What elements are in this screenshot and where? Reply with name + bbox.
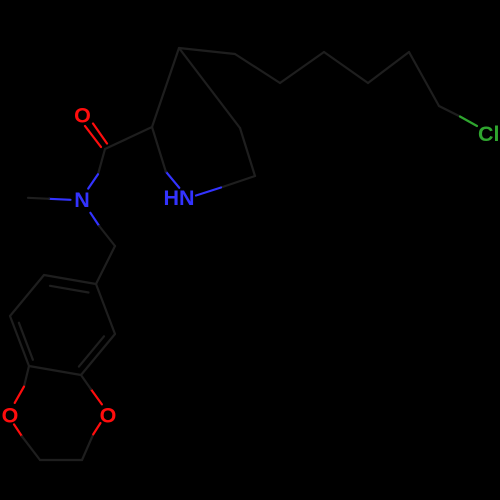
bond Ca-O2 oxygen half (red) (15, 387, 24, 403)
chain bond A2-A3 (280, 52, 324, 83)
bond O2-CH2L carbon half (22, 436, 40, 460)
bond N1-CH3 carbon half (28, 198, 49, 199)
svg-text:N: N (74, 188, 90, 212)
benzene edge Cb-RT (81, 334, 115, 375)
chain bond A1-A2 (235, 54, 280, 83)
benzene inner line Cb-RT (79, 336, 104, 366)
benzene edge V6-V5 (10, 275, 44, 316)
benzene edge Bt-V6 (44, 275, 96, 284)
benzene edge Ca-Cb (29, 366, 81, 375)
bond Cco-N1 carbon half (98, 149, 105, 174)
bond O3-Cb oxygen half (red) (91, 389, 102, 404)
benzene edge V5-Ca (10, 316, 29, 366)
bond CH2R-O3 carbon half (82, 434, 93, 460)
bond Ca-O2 carbon half (24, 366, 29, 387)
bond N1-CH2 nitrogen half (blue) (90, 213, 99, 226)
bond C=O double (red) (85, 124, 107, 148)
svg-text:O: O (2, 404, 19, 428)
bond O2-CH2L oxygen half (red) (14, 424, 22, 436)
chain bond A4-A5 (368, 52, 409, 83)
bond N2-C2 nitrogen half (blue) (166, 172, 180, 188)
svg-text:HN: HN (163, 186, 194, 210)
bond CH2-benzene (96, 246, 115, 284)
benzene inner line Bt-V6 (50, 286, 89, 293)
bond CH2L-CH2R (40, 459, 82, 461)
svg-text:Cl: Cl (478, 122, 500, 146)
ring bond C4-C6 (179, 48, 240, 128)
benzene edge RT-Bt (96, 284, 115, 334)
chain bond A3-A4 (324, 52, 368, 83)
bond C1-N2 nitrogen half (blue) (196, 188, 221, 196)
svg-text:O: O (100, 404, 117, 428)
bond N1-CH2 carbon half (99, 226, 115, 246)
chain bond A5-A6 (409, 52, 439, 106)
bond C1-N2 carbon half (221, 176, 255, 188)
bond N2-C2 carbon half (152, 127, 166, 172)
ring bond C6-C1 (240, 128, 255, 176)
bond A6-Cl (green) (439, 106, 460, 117)
svg-text:O: O (74, 104, 91, 128)
bond Cco-N1 nitrogen half (blue) (88, 174, 98, 188)
bond N1-CH3 nitrogen half (blue) (49, 199, 71, 200)
bond O3-Cb carbon half (81, 375, 91, 389)
ring bond C2-C4 (152, 48, 179, 127)
bond Cco-C2 (105, 127, 152, 149)
chain bond C4-A1 (179, 48, 235, 54)
bond CH2R-O3 oxygen half (red) (93, 423, 100, 434)
benzene inner line V5-Ca (19, 323, 33, 360)
